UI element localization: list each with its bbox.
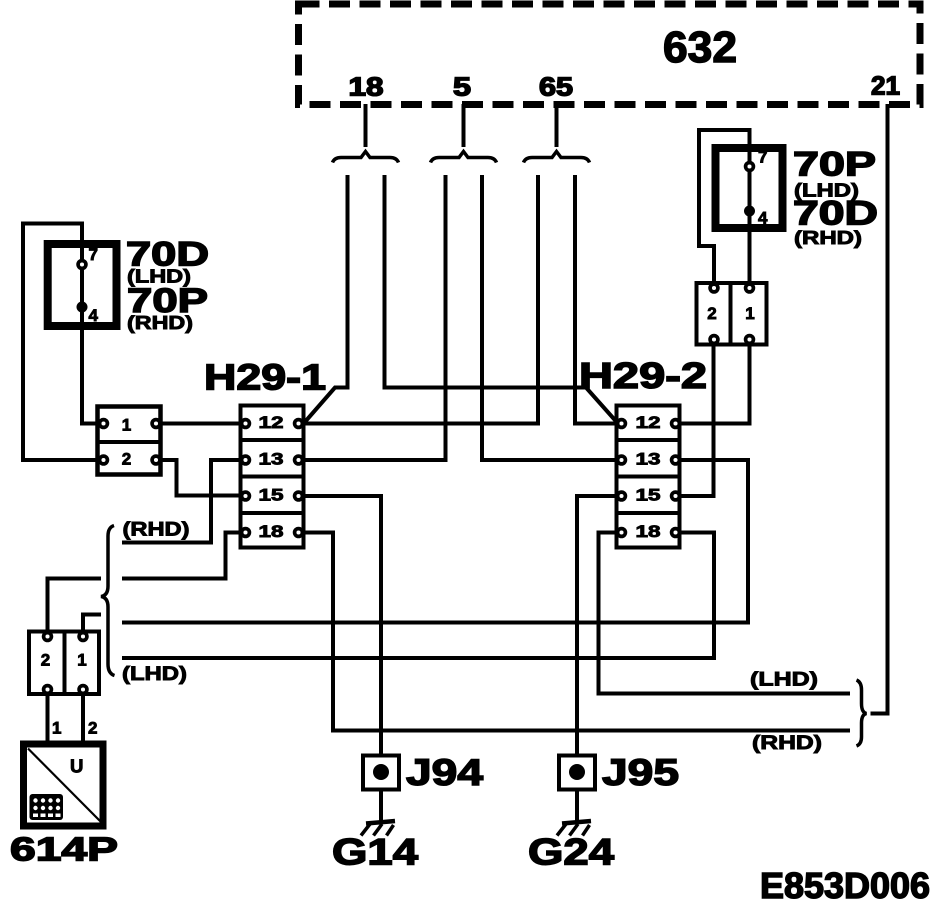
svg-text:12: 12 <box>636 413 661 432</box>
svg-text:13: 13 <box>259 450 284 469</box>
svg-text:(RHD): (RHD) <box>123 520 190 541</box>
svg-text:18: 18 <box>636 522 661 541</box>
svg-text:18: 18 <box>349 72 384 102</box>
svg-text:4: 4 <box>758 209 768 228</box>
svg-text:15: 15 <box>259 486 284 505</box>
svg-text:H29-1: H29-1 <box>204 357 326 398</box>
wire stub from 632 pin 65 <box>555 104 559 147</box>
wire stub from 632 pin 5 <box>462 104 466 147</box>
connector H29-2 <box>615 406 682 548</box>
svg-text:(RHD): (RHD) <box>127 313 193 333</box>
svg-text:(RHD): (RHD) <box>794 228 862 248</box>
2-pole connector block 2/1 (right) <box>697 281 767 347</box>
wire left block pin2 down to 614P pin1 <box>46 692 50 744</box>
splice brace under pin 18 <box>333 152 399 163</box>
svg-text:(LHD): (LHD) <box>122 664 187 685</box>
ground G14 <box>361 821 395 836</box>
wire pin18 branch left to H29-1 pin12 <box>304 175 348 423</box>
wire H29-2 pin15 left down to J95 <box>577 496 618 755</box>
wire 70D pin4 down to connector row 1 <box>82 309 99 424</box>
wire J95 to ground G24 <box>575 790 579 821</box>
svg-text:70P: 70P <box>793 146 876 184</box>
connector H29-1 <box>239 406 306 548</box>
svg-text:J95: J95 <box>602 752 679 793</box>
wire right block pin1 down to H29-2 pin12 <box>679 342 750 424</box>
component 614P box <box>24 744 104 826</box>
svg-text:(RHD): (RHD) <box>752 733 822 754</box>
svg-text:2: 2 <box>88 719 97 738</box>
wire H29-1 pin18 left to left brace (RHD) <box>122 533 241 579</box>
svg-text:U: U <box>70 756 83 777</box>
svg-text:G14: G14 <box>332 832 419 873</box>
svg-text:632: 632 <box>663 23 737 72</box>
svg-text:1: 1 <box>122 416 131 435</box>
wire pin18 branch right to H29-2 pin12 <box>385 175 619 424</box>
svg-text:2: 2 <box>41 651 50 670</box>
svg-text:H29-2: H29-2 <box>579 355 707 396</box>
svg-text:E853D006: E853D006 <box>760 865 930 906</box>
wire right block pin2 down to H29-2 pin15 <box>679 342 714 496</box>
2-pole connector block 1/2 (left) <box>96 407 163 475</box>
connector 70P/70D (right) <box>716 148 783 229</box>
wire H29-2 pin18 left to (LHD) wire to right brace <box>599 533 851 694</box>
svg-text:2: 2 <box>122 450 131 469</box>
svg-text:7: 7 <box>758 148 767 167</box>
svg-text:18: 18 <box>259 522 284 541</box>
right alternatives brace <box>857 680 867 746</box>
wire stub from 632 pin 18 <box>364 104 368 147</box>
2-pole connector block 2/1 (left) <box>29 630 99 697</box>
wire H29-1 pin15 right down to J94 <box>303 496 381 755</box>
wire left block pin2 up to left brace <box>48 579 102 635</box>
wire J94 to ground G14 <box>379 790 383 821</box>
wire 70P pin4 down to right block pin1 <box>748 213 752 285</box>
ground G24 <box>557 821 591 836</box>
wire 70P pin7 up-left-down to right block pin2 <box>699 130 750 285</box>
wire H29-1 pin18 right to (RHD) wire to right brace <box>303 533 850 731</box>
wire block row1 to H29-1 pin12 <box>160 422 241 426</box>
wire H29-2 pin13 right to LHD long wire <box>122 460 748 623</box>
svg-text:7: 7 <box>89 245 98 264</box>
label 70P (LHD) / 70D (RHD) <box>793 146 878 249</box>
svg-text:2: 2 <box>707 304 716 323</box>
connector 70D/70P (left) <box>48 244 117 326</box>
wire block row2 to H29-1 pin15 <box>160 460 241 496</box>
splice brace under pin 5 <box>431 152 497 163</box>
svg-text:G24: G24 <box>528 832 615 873</box>
unit 632 dashed box <box>299 4 921 105</box>
svg-text:1: 1 <box>52 719 61 738</box>
svg-text:4: 4 <box>89 306 99 325</box>
wire H29-1 pin13 left to left brace (RHD) <box>122 460 241 543</box>
wire pin5 branch right to H29-2 pin13 <box>482 175 617 460</box>
wire pin5 branch left to H29-1 pin13 <box>303 175 446 460</box>
wire 70D pin7 up-left-down to connector row 2 <box>23 224 99 461</box>
splice J94 <box>363 756 399 790</box>
splice brace under pin 65 <box>524 152 590 163</box>
svg-text:13: 13 <box>636 450 661 469</box>
splice J95 <box>559 756 595 790</box>
wire pin65 branch right to H29-2 pin12 <box>575 175 617 424</box>
svg-text:614P: 614P <box>10 831 118 868</box>
wire from 632 pin 21 down to right brace <box>871 104 888 714</box>
wire H29-2 pin18 right to LHD long wire <box>122 533 714 659</box>
wire pin65 branch left to H29-1 pin12 <box>303 175 538 424</box>
svg-text:1: 1 <box>77 651 86 670</box>
svg-text:65: 65 <box>539 72 573 102</box>
svg-text:21: 21 <box>871 71 900 101</box>
label 70D (LHD) / 70P (RHD) <box>126 236 209 334</box>
wire left block pin1 up to left brace <box>83 615 101 635</box>
left alternatives brace <box>101 526 115 676</box>
wire left block pin1 down to 614P pin2 <box>81 692 85 744</box>
svg-text:1: 1 <box>745 304 754 323</box>
svg-text:70D: 70D <box>793 195 878 233</box>
svg-text:(LHD): (LHD) <box>750 670 818 691</box>
svg-text:12: 12 <box>259 413 284 432</box>
svg-text:15: 15 <box>636 486 661 505</box>
svg-text:J94: J94 <box>406 752 484 793</box>
svg-text:5: 5 <box>453 72 471 102</box>
